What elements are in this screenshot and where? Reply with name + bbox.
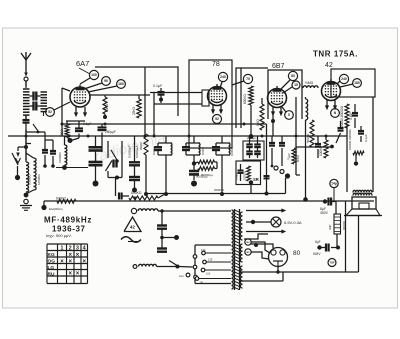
electrolytic stack right bbox=[134, 136, 136, 162]
trimmer capacitor cluster bbox=[32, 92, 34, 101]
wave band switch S1a bbox=[33, 124, 38, 131]
cathode arrows 6B7 bbox=[272, 107, 274, 113]
wire antenna down bbox=[25, 81, 27, 86]
power transformer secondary winding bbox=[240, 212, 242, 240]
svg-text:70: 70 bbox=[246, 77, 250, 81]
cap right of 42 bbox=[340, 121, 342, 127]
resistor right of IF3 bbox=[292, 148, 296, 164]
switch contact dot bbox=[17, 166, 19, 175]
plug terminals right bbox=[274, 166, 278, 170]
grid circle 15 bbox=[292, 81, 300, 89]
stub branch y143 bbox=[26, 143, 31, 145]
resistor 20K vertical mid bbox=[144, 134, 148, 155]
vertical x296 bbox=[295, 97, 297, 175]
svg-text:RU: RU bbox=[48, 272, 55, 278]
LC tank 3 feeds bbox=[221, 136, 223, 143]
grid circle N bbox=[331, 109, 340, 118]
svg-text:2: 2 bbox=[69, 246, 72, 252]
wire field coil down bbox=[336, 234, 338, 248]
svg-text:0.1μF: 0.1μF bbox=[364, 134, 368, 142]
svg-text:600KΩ: 600KΩ bbox=[243, 94, 247, 104]
svg-text:10000: 10000 bbox=[201, 147, 205, 155]
resistor winding on main line bbox=[26, 162, 29, 192]
box around 78 bbox=[189, 60, 232, 148]
speaker magnet bbox=[352, 197, 376, 209]
grid circle 90 bbox=[102, 77, 111, 86]
plate wires 80 bbox=[244, 234, 268, 239]
sub-box capacitor bbox=[112, 160, 114, 168]
svg-text:6A7: 6A7 bbox=[76, 59, 89, 68]
bottom bus y272 bbox=[240, 271, 359, 273]
mains fuse coil 2 bbox=[139, 264, 157, 266]
terminal bottom left bbox=[24, 199, 28, 203]
grid circle 80 bbox=[288, 71, 297, 80]
svg-text:125: 125 bbox=[208, 258, 213, 262]
wire left of 78 y104 bbox=[154, 103, 202, 105]
svg-text:100μμ: 100μμ bbox=[235, 172, 239, 180]
wire y147 right bbox=[296, 146, 332, 148]
svg-text:42: 42 bbox=[130, 225, 135, 230]
svg-text:10000: 10000 bbox=[230, 148, 234, 156]
svg-text:×: × bbox=[82, 259, 86, 265]
ground main bbox=[20, 205, 32, 207]
svg-text:1R: 1R bbox=[200, 281, 203, 285]
selector tap 130 bbox=[202, 251, 206, 255]
bottom bus y281 bbox=[240, 280, 283, 282]
decoupling cap 80000uu bbox=[193, 165, 195, 171]
svg-text:Ισχν. 500 μμV.: Ισχν. 500 μμV. bbox=[46, 233, 72, 238]
power transformer primary winding bbox=[232, 210, 234, 289]
svg-text:ΔΙΙΡ: ΔΙΙΡ bbox=[328, 224, 332, 230]
heater wire bottom arrow bbox=[246, 231, 283, 233]
antenna bbox=[21, 52, 31, 74]
svg-text:½MΩ: ½MΩ bbox=[305, 81, 314, 85]
wide capacitor stack bbox=[95, 136, 97, 147]
resistor row 25000 a bbox=[198, 160, 215, 164]
switch lever diagonal bbox=[12, 153, 18, 165]
svg-text:80: 80 bbox=[293, 250, 301, 257]
wire top bus to 6B7 bbox=[241, 67, 268, 69]
svg-text:130: 130 bbox=[201, 248, 206, 252]
svg-text:OG: OG bbox=[48, 259, 56, 265]
svg-text:100: 100 bbox=[91, 73, 97, 77]
svg-text:5: 5 bbox=[288, 113, 290, 117]
svg-text:80000μμ: 80000μμ bbox=[196, 175, 208, 179]
socket internals cap bbox=[240, 164, 242, 170]
grid circle 160 bbox=[117, 80, 126, 89]
line cap 1 bbox=[161, 212, 163, 225]
rectifier filament wires bbox=[251, 242, 270, 253]
cluster caps left-bottom bbox=[44, 132, 46, 149]
cap on x266 line bbox=[264, 175, 270, 177]
IF3 box bbox=[243, 141, 264, 160]
LC tank 1 feeds bbox=[165, 136, 167, 143]
selector tap 125 bbox=[203, 260, 207, 264]
svg-text:240: 240 bbox=[220, 75, 226, 79]
diode load resistor bbox=[260, 104, 264, 130]
terminal 2+c bbox=[186, 273, 190, 277]
right edge vertical x373 bbox=[372, 97, 374, 192]
selector tap 1R bbox=[195, 277, 199, 281]
selector tap 110 bbox=[201, 268, 205, 272]
svg-text:6.5V-0.3A: 6.5V-0.3A bbox=[284, 220, 302, 225]
vertical x266 bbox=[266, 124, 268, 194]
svg-text:MV: MV bbox=[246, 242, 250, 244]
svg-text:KG: KG bbox=[48, 252, 55, 258]
svg-text:×: × bbox=[76, 253, 80, 259]
tube 6A7 bbox=[70, 87, 90, 107]
svg-text:1000Ω: 1000Ω bbox=[152, 147, 156, 155]
vertical wire x145 bbox=[144, 67, 146, 136]
main divider bus y201 bbox=[44, 200, 374, 202]
circle 140 right bbox=[330, 179, 338, 187]
svg-text:110: 110 bbox=[206, 272, 211, 276]
filter cap 8uF bbox=[323, 199, 327, 203]
svg-text:52: 52 bbox=[48, 110, 52, 114]
svg-text:2+c: 2+c bbox=[179, 274, 184, 278]
mains switch arrow bbox=[17, 147, 19, 151]
resistor row 25000 b bbox=[198, 167, 215, 171]
svg-text:×: × bbox=[68, 259, 72, 265]
svg-text:600KΩ: 600KΩ bbox=[131, 191, 142, 195]
vertical left box 6A7 bbox=[61, 88, 63, 136]
antenna coil L1 secondary bbox=[41, 91, 48, 93]
grid circle 5 bbox=[285, 111, 294, 120]
screen box left of 78 bbox=[202, 90, 209, 106]
padder capacitor bbox=[23, 119, 30, 121]
grid circle 52 under 78 bbox=[213, 115, 222, 124]
svg-text:600KΩ: 600KΩ bbox=[56, 197, 66, 201]
svg-text:×: × bbox=[60, 259, 64, 265]
main bus y136 bbox=[8, 135, 347, 137]
svg-text:250μμF: 250μμF bbox=[105, 130, 116, 134]
speaker return wire bbox=[358, 216, 360, 273]
speaker output transformer bbox=[353, 190, 372, 192]
svg-text:25000Ω: 25000Ω bbox=[214, 188, 224, 192]
tube 6B7 bbox=[268, 89, 287, 108]
node cathode bbox=[67, 137, 69, 139]
chassis blob bbox=[191, 181, 197, 187]
svg-text:ΤΩΡ: ΤΩΡ bbox=[330, 261, 335, 264]
grid circle 240 of 42 bbox=[339, 74, 348, 83]
svg-text:6B7: 6B7 bbox=[272, 63, 285, 70]
selector top wire bbox=[195, 244, 231, 246]
svg-text:20KΩ: 20KΩ bbox=[139, 142, 143, 150]
node mains mid bbox=[160, 236, 164, 240]
narrow box x236-241 bbox=[236, 68, 241, 128]
vertical x213 down bbox=[213, 169, 215, 194]
circle 10R bbox=[328, 259, 336, 267]
mains fuse coil bbox=[138, 209, 158, 211]
svg-text:SR: SR bbox=[253, 177, 259, 182]
resistor 300ohm bbox=[65, 124, 69, 137]
svg-text:×: × bbox=[68, 253, 72, 259]
power transformer core bbox=[235, 210, 240, 212]
box around 6A7 osc section bbox=[95, 67, 178, 116]
svg-text:180: 180 bbox=[354, 81, 360, 85]
switch sub-box bbox=[107, 141, 109, 158]
svg-text:TNR 175A.: TNR 175A. bbox=[313, 50, 358, 59]
cathode line 6A7 bbox=[66, 120, 85, 122]
volume control coil 10000ohm bbox=[34, 158, 37, 190]
cathode arrows 42 bbox=[326, 100, 328, 107]
grid cap circle 100 bbox=[89, 70, 98, 79]
output cap bottom bbox=[336, 246, 340, 250]
svg-text:4: 4 bbox=[83, 246, 86, 252]
svg-text:25KΩ: 25KΩ bbox=[132, 106, 136, 115]
heater wire top arrow bbox=[246, 210, 283, 212]
svg-text:15: 15 bbox=[294, 83, 298, 87]
osc grid resistor 20Kohm bbox=[103, 97, 107, 114]
wire mains to transformer bbox=[158, 210, 231, 212]
bus y193.5 bbox=[146, 193, 286, 195]
AC tilde symbol bbox=[121, 237, 141, 243]
line cap 2 bbox=[161, 238, 163, 249]
wire 6A7 plate right bbox=[89, 94, 150, 96]
svg-text:240: 240 bbox=[341, 77, 347, 81]
svg-text:450V: 450V bbox=[320, 211, 329, 215]
wire bus y124 bbox=[62, 123, 267, 125]
mains switch bbox=[157, 266, 177, 268]
valve table grid bbox=[47, 243, 88, 245]
svg-text:×: × bbox=[76, 271, 80, 277]
svg-text:10000Ω: 10000Ω bbox=[58, 152, 62, 163]
tube 42 bbox=[322, 82, 341, 101]
svg-text:100KΩ 60000Ω: 100KΩ 60000Ω bbox=[348, 129, 352, 150]
svg-text:80: 80 bbox=[291, 74, 295, 78]
small zigzag between feeds bbox=[353, 151, 364, 155]
node antenna bottom bbox=[24, 145, 28, 149]
mains terminal 2 bbox=[133, 265, 137, 269]
resistor 100Kohm vertical right bbox=[324, 140, 328, 158]
resistor right 600K bbox=[310, 120, 314, 147]
svg-text:42: 42 bbox=[325, 62, 333, 69]
rectifier output down bbox=[277, 267, 279, 273]
main bus y167 bbox=[56, 167, 88, 169]
mains terminal circle bbox=[131, 208, 136, 213]
svg-text:MF·489kHz: MF·489kHz bbox=[44, 216, 92, 225]
svg-text:14μ: 14μ bbox=[331, 182, 337, 186]
junction dots misc bbox=[144, 135, 147, 138]
grid circle 70 right of 78 bbox=[243, 74, 252, 83]
capacitor before 600K bbox=[118, 193, 120, 200]
field coil resistor bbox=[335, 202, 337, 215]
dial lamps bbox=[245, 239, 251, 245]
node above ground bbox=[24, 193, 29, 198]
LC tank 1 bbox=[158, 142, 172, 144]
wire y177 to divider bbox=[115, 178, 117, 197]
wire left main down bbox=[25, 130, 27, 162]
svg-text:90: 90 bbox=[104, 79, 108, 83]
svg-text:600KΩ: 600KΩ bbox=[306, 133, 310, 143]
box around 42 bbox=[331, 69, 375, 97]
tube 78 bbox=[208, 87, 227, 106]
IF3 cluster bbox=[249, 136, 251, 144]
capacitor 250uuF bbox=[101, 124, 103, 127]
wire left of 78 y92 bbox=[150, 92, 202, 94]
socket internals resistor bbox=[247, 166, 251, 181]
osc resistor 25Kohm bbox=[137, 99, 141, 118]
speaker feed line left bbox=[346, 125, 348, 192]
voltage selector terminals on line bbox=[193, 255, 197, 259]
LC tank 2 bbox=[186, 142, 200, 144]
wire 600K down to bus bbox=[250, 105, 252, 136]
resistor 600Kohm vertical bbox=[249, 86, 253, 105]
box around 6B7 bbox=[268, 70, 302, 119]
svg-text:10000μμF: 10000μμF bbox=[128, 145, 132, 158]
selector bottom wire bbox=[195, 283, 231, 285]
svg-text:LG: LG bbox=[48, 265, 55, 271]
svg-text:×: × bbox=[68, 271, 72, 277]
svg-text:20000Ω: 20000Ω bbox=[244, 171, 247, 180]
svg-text:MV: MV bbox=[246, 252, 250, 254]
vertical x154 bbox=[153, 93, 155, 137]
svg-text:Ελαβθόπη: Ελαβθόπη bbox=[49, 207, 63, 211]
cap right x318 bbox=[317, 136, 319, 143]
switch S3 bbox=[111, 150, 117, 160]
vertical x305 bbox=[305, 120, 307, 200]
svg-text:10000Ω: 10000Ω bbox=[37, 174, 41, 185]
chassis blob left bbox=[93, 181, 99, 187]
svg-text:0.1μF: 0.1μF bbox=[153, 84, 163, 88]
speaker socket box SR bbox=[236, 161, 261, 185]
wire right bottom vertical bbox=[345, 201, 347, 272]
LC tank 3 bbox=[216, 142, 230, 144]
branch to mains switch bbox=[18, 146, 26, 148]
speaker cone bbox=[346, 209, 380, 216]
svg-text:52: 52 bbox=[215, 117, 219, 121]
node under 6B7 bbox=[271, 119, 275, 123]
selector vertical line bbox=[194, 245, 196, 284]
antenna coil L1 primary bbox=[25, 81, 27, 88]
cap between feeds bbox=[360, 126, 362, 130]
pilot lamp bbox=[271, 217, 281, 227]
warning triangle bbox=[124, 217, 141, 232]
grid circle 180 bbox=[353, 79, 362, 88]
svg-text:78: 78 bbox=[212, 61, 220, 68]
svg-text:1: 1 bbox=[61, 246, 64, 252]
grid circle 240 of 78 bbox=[218, 72, 227, 81]
grid circle 52 left bbox=[46, 108, 55, 117]
svg-text:160: 160 bbox=[118, 82, 124, 86]
svg-text:1MΩ: 1MΩ bbox=[256, 119, 260, 126]
svg-text:3: 3 bbox=[76, 246, 79, 252]
svg-text:600Ω: 600Ω bbox=[296, 155, 300, 162]
cathode arrows 78 bbox=[212, 105, 214, 111]
svg-text:10000Ω: 10000Ω bbox=[28, 174, 32, 185]
svg-text:0.1μF: 0.1μF bbox=[83, 122, 92, 126]
wire SR box down bbox=[250, 185, 252, 194]
resistor 10000ohm vertical bbox=[65, 145, 67, 165]
cluster right of 6B7 bbox=[271, 136, 273, 142]
cathode arrows 6A7 bbox=[75, 107, 77, 114]
ground blob bbox=[41, 205, 46, 210]
LC tank 2 feeds bbox=[193, 136, 195, 143]
branch top right cluster bbox=[26, 131, 45, 133]
tube 80 rectifier bbox=[269, 248, 288, 267]
svg-text:20KΩ: 20KΩ bbox=[105, 103, 109, 112]
svg-text:8μF: 8μF bbox=[315, 240, 321, 244]
vertical x306 coil bbox=[306, 99, 308, 120]
svg-text:545V: 545V bbox=[313, 252, 321, 256]
